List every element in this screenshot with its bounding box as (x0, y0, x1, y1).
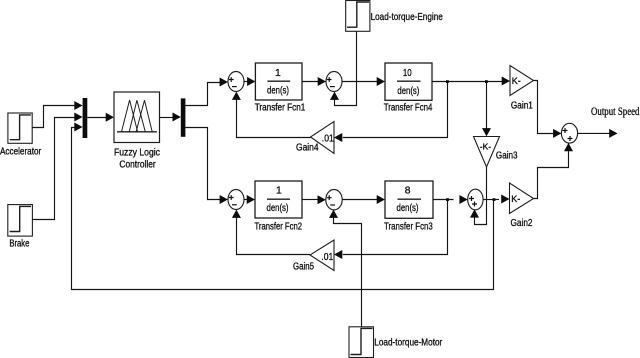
svg-text:-K-: -K- (480, 141, 492, 151)
svg-text:den(s): den(s) (267, 203, 289, 214)
svg-text:1: 1 (275, 68, 281, 79)
svg-text:Gain5: Gain5 (293, 261, 314, 272)
svg-text:Transfer Fcn2: Transfer Fcn2 (255, 221, 303, 232)
svg-text:Output Speed: Output Speed (591, 106, 640, 118)
svg-text:Accelerator: Accelerator (0, 147, 42, 158)
svg-text:Gain2: Gain2 (511, 218, 533, 229)
svg-text:Brake: Brake (9, 239, 29, 250)
svg-text:Transfer Fcn4: Transfer Fcn4 (384, 103, 433, 114)
svg-text:Load-torque-Engine: Load-torque-Engine (371, 12, 444, 23)
svg-text:8: 8 (405, 186, 411, 197)
svg-text:10: 10 (403, 68, 412, 79)
svg-text:Transfer Fcn3: Transfer Fcn3 (384, 221, 433, 232)
svg-text:den(s): den(s) (267, 86, 289, 97)
svg-text:K-: K- (512, 76, 521, 86)
svg-text:den(s): den(s) (397, 203, 419, 214)
svg-text:1: 1 (276, 186, 282, 197)
svg-text:.01: .01 (321, 252, 333, 263)
svg-text:den(s): den(s) (397, 86, 419, 97)
svg-text:K-: K- (511, 194, 520, 204)
svg-text:Fuzzy Logic: Fuzzy Logic (114, 148, 160, 159)
svg-text:Load-torque-Motor: Load-torque-Motor (374, 338, 443, 349)
svg-text:Gain3: Gain3 (496, 151, 518, 162)
svg-text:Controller: Controller (119, 160, 156, 171)
svg-text:Transfer Fcn1: Transfer Fcn1 (255, 103, 306, 114)
svg-text:Gain4: Gain4 (296, 142, 319, 153)
svg-text:Gain1: Gain1 (511, 101, 533, 112)
svg-text:.01: .01 (322, 134, 334, 145)
